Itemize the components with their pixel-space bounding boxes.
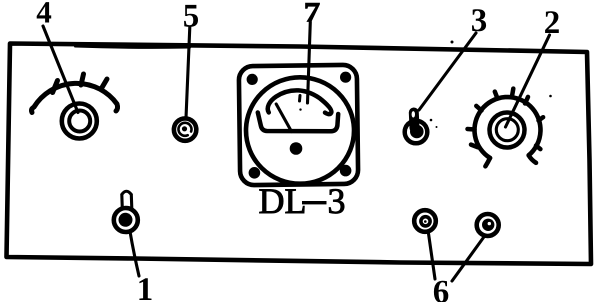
knob R4 outer circle [62, 104, 97, 139]
leader line 3 [419, 33, 476, 110]
knob R2 middle circle [490, 113, 525, 148]
jack J5 dot [182, 126, 187, 131]
label 1 [139, 278, 151, 300]
knob R4 scale arc [32, 83, 118, 112]
meter M7 bezel [239, 65, 358, 185]
jack J5 inner [178, 123, 191, 136]
knob R2 ticks [468, 89, 544, 150]
switch S3 lever [409, 113, 420, 129]
label 4 [37, 2, 52, 22]
knob R2 ticked ring [474, 97, 540, 158]
knob R2 inner circle [496, 119, 518, 141]
meter screw TL [247, 74, 258, 85]
leader line 4 [43, 26, 78, 113]
speck near knob R2 [549, 95, 552, 98]
jack J6b middle blob [482, 219, 494, 231]
meter dial window bottom [258, 113, 338, 132]
label 7 [306, 3, 320, 21]
leader line 5 [186, 27, 190, 118]
leader line 6a [429, 234, 436, 280]
meter M7 circle [246, 77, 354, 183]
jack J6a middle ring [421, 217, 430, 226]
knob R2 hook left [485, 158, 490, 166]
switch S1 center blob [119, 213, 133, 227]
switch S3 ring [405, 121, 428, 144]
speck near top right [451, 41, 454, 44]
jack J5 outer [174, 118, 196, 140]
switch S1 ring [114, 208, 138, 232]
meter center dot [290, 142, 303, 155]
knob R4 tick 2 [81, 74, 84, 85]
knob R4 tick 1 [53, 81, 58, 93]
meter screw BR [340, 165, 352, 177]
meter needle [276, 104, 291, 132]
jack J6b white spec [488, 222, 491, 225]
switch S3 center blob [410, 125, 424, 139]
meter screw BL [249, 167, 261, 179]
leader line 1 [130, 232, 139, 277]
meter dial arch [268, 90, 332, 114]
knob R2 hook right [529, 155, 536, 163]
jack J6a dot [424, 220, 427, 223]
speck near switch S3 b [436, 126, 438, 128]
meter screw TR [340, 72, 351, 83]
label 6 [434, 281, 448, 302]
knob R4 inner circle [69, 111, 90, 132]
jack J6a outer [414, 210, 436, 232]
label 2 [545, 11, 559, 33]
wire (double-stroke artifact on top border) [75, 47, 190, 48]
meter dial tick [298, 96, 302, 102]
switch S1 lever outline [122, 191, 132, 208]
label 5 [184, 5, 198, 27]
switch S3 lever slit [412, 111, 415, 117]
label DL-3 [260, 189, 305, 213]
leader line 7 [308, 22, 311, 103]
label 3 [472, 9, 486, 31]
jack J6b outer [477, 214, 499, 236]
speck in dial [299, 108, 301, 110]
panel outline [7, 44, 592, 265]
knob R4 tick 3 [102, 79, 107, 88]
speck near switch S3 [430, 119, 433, 122]
leader line 6b [452, 238, 484, 282]
leader line 2 [506, 35, 550, 127]
